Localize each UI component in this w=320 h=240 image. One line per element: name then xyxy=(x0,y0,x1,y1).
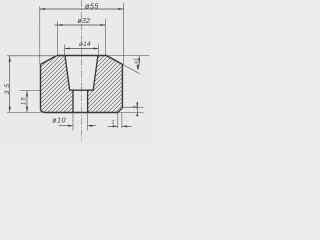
angle arc bottom arrow xyxy=(137,65,139,70)
angle: top face extension to the right xyxy=(107,55,150,57)
right bottom chamfer xyxy=(118,108,123,113)
d32 right extension xyxy=(105,19,107,55)
dim 1 line right segment with arrow xyxy=(122,125,132,127)
dim d10 line right segment xyxy=(88,125,97,127)
d10 right arrow xyxy=(88,125,93,127)
d55 left extension xyxy=(39,7,41,65)
right shoulder slope xyxy=(107,56,123,65)
d10 left extension xyxy=(72,114,74,131)
35 top arrow xyxy=(9,56,11,62)
d32 left arrow xyxy=(57,24,62,26)
paper noise overlay xyxy=(0,0,150,146)
d10 right extension xyxy=(87,114,89,131)
d55 right arrow xyxy=(118,8,123,10)
dim d55 line xyxy=(40,8,124,10)
recess left wall xyxy=(65,56,70,91)
35 bottom arrow xyxy=(9,107,11,113)
chamfer top right extension line xyxy=(122,106,143,108)
d14 right arrow (outside, pointing left) xyxy=(93,47,98,49)
1 left arrow xyxy=(113,125,118,127)
15 bottom arrow xyxy=(26,107,28,113)
left bottom chamfer xyxy=(41,111,45,113)
left shoulder slope xyxy=(41,56,58,65)
d32 left extension xyxy=(56,21,58,55)
3 lower arrow (pointing up) xyxy=(136,112,138,116)
d14 right extension xyxy=(97,45,99,56)
top face left extension line xyxy=(7,55,57,57)
right side xyxy=(121,64,123,107)
dim 35 line xyxy=(9,56,11,112)
section hatching right wall xyxy=(88,56,123,113)
part outline: top face xyxy=(57,55,107,57)
bottom left extension line xyxy=(7,111,44,113)
dim 1 line left segment with arrow xyxy=(108,125,118,127)
hole right wall xyxy=(87,90,89,112)
recess floor left extension line xyxy=(20,90,42,92)
dim d10 line left segment xyxy=(59,125,74,127)
15 top arrow xyxy=(26,91,28,97)
dim 1 extension line right xyxy=(121,113,123,129)
d14 left extension xyxy=(64,45,66,56)
dim 15 line xyxy=(26,91,28,113)
dim 1 extension line left xyxy=(117,113,119,129)
angle arc top arrow xyxy=(138,56,140,60)
1 right arrow xyxy=(122,125,127,127)
hole left wall xyxy=(72,90,74,112)
d55 right extension xyxy=(123,3,125,65)
d14 left arrow (outside, pointing right) xyxy=(65,47,70,49)
d10 left arrow xyxy=(68,125,73,127)
left side xyxy=(40,64,42,110)
section hatching left wall xyxy=(41,56,74,113)
dim d14 line xyxy=(65,48,99,50)
recess right wall xyxy=(93,56,98,91)
bottom face xyxy=(44,112,118,114)
d55 left arrow xyxy=(40,8,45,10)
3 upper arrow (pointing down) xyxy=(136,103,138,107)
center line xyxy=(80,0,82,142)
dim d32 line xyxy=(55,24,106,26)
angle arc xyxy=(138,56,140,70)
dim 3 vertical line xyxy=(136,101,138,116)
d32 right arrow xyxy=(101,24,106,26)
bottom right extension line xyxy=(118,111,144,113)
angle: shoulder slope extension xyxy=(122,64,139,73)
recess floor xyxy=(70,89,94,91)
